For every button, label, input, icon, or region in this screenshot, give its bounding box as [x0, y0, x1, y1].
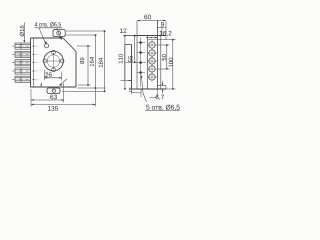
port tab 4	[12, 68, 39, 74]
bottom dim extension lines	[31, 83, 64, 107]
right view: body block step	[125, 45, 132, 81]
ext line body bottom	[77, 87, 106, 89]
left view: inner wall line	[33, 38, 35, 87]
leader of Ø16	[23, 23, 25, 43]
port hole 1	[149, 42, 155, 48]
port hole 5	[149, 74, 155, 80]
leader of 5 otv note	[142, 77, 147, 103]
note 4 otv shelf	[35, 27, 63, 29]
top mounting lug	[53, 30, 65, 37]
dim text 50	[162, 54, 166, 60]
dim 9 line	[158, 27, 167, 29]
dim text 26	[45, 72, 52, 77]
dim text 16,2	[160, 31, 172, 36]
dim text 110	[118, 54, 122, 63]
dim text 100	[169, 58, 173, 67]
dot hole 1	[139, 41, 142, 44]
note 5 otv	[146, 105, 179, 111]
port tab 3	[12, 60, 39, 66]
dim 135 line	[31, 103, 96, 105]
dim 50 line	[166, 45, 168, 69]
dim 100 line	[172, 40, 174, 90]
diagonal tick near bottom lug	[60, 79, 67, 85]
dim text 135	[48, 106, 58, 111]
dim text 184	[99, 58, 103, 67]
bottom bracket top edge	[158, 85, 167, 87]
lug hole center tick	[52, 89, 55, 92]
dim 6,7 arrows	[162, 81, 164, 93]
dim 110 line	[124, 36, 126, 90]
dim 26 line	[44, 77, 61, 79]
dim text 164	[90, 57, 94, 66]
strip axis	[151, 40, 153, 83]
port tab 2	[12, 51, 39, 57]
plate right edge	[157, 21, 159, 90]
ext line lug top	[66, 30, 106, 32]
leader to corner hole	[39, 28, 46, 44]
label O16	[20, 26, 24, 37]
port tab 1	[12, 43, 39, 49]
dim text 9	[161, 22, 164, 27]
bottom mounting lug	[47, 88, 60, 93]
arrow mark at bottom edge	[40, 83, 42, 87]
dim 184 line	[104, 31, 106, 92]
dots axis line	[140, 38, 142, 88]
dot hole 4	[139, 71, 142, 74]
note 5 otv shelf	[145, 110, 180, 112]
dim 26 extension lines	[44, 70, 61, 81]
inner wall	[136, 21, 138, 89]
dim text 89	[80, 58, 84, 64]
dim 63 line	[31, 99, 64, 101]
top lug hole	[57, 31, 61, 35]
flange center cross	[45, 53, 61, 69]
ext line lug bottom	[62, 91, 106, 93]
leader to top lug hole	[57, 28, 62, 39]
dim text 63	[50, 95, 57, 100]
dim 60 line	[137, 20, 166, 22]
port hole 3	[149, 58, 155, 64]
port strip left edge	[147, 35, 149, 89]
dot hole 3	[139, 61, 142, 64]
body block bottom arrow line	[121, 80, 132, 82]
bottom bracket right edge	[165, 86, 167, 90]
dim 89 line	[87, 46, 89, 85]
bottom lug hole	[52, 89, 55, 92]
dot hole 2	[139, 51, 142, 54]
dim text 5	[129, 88, 132, 92]
note 4 otv	[35, 22, 61, 27]
port hole 2	[149, 50, 155, 56]
plate second right edge	[160, 35, 162, 89]
dim 89 extension ticks	[77, 46, 91, 85]
dim 164 line	[95, 35, 97, 107]
corner hole	[44, 44, 48, 48]
top bracket bottom edge	[148, 39, 166, 41]
right view: plate top edge	[137, 35, 166, 37]
right view: plate bottom edge	[132, 88, 167, 90]
dim 55 line	[134, 36, 136, 63]
dim 16,2 arrow line	[146, 37, 158, 39]
right view: plate left edge	[131, 45, 133, 90]
flange bolt holes	[52, 50, 56, 54]
dim 50 ticks	[158, 45, 170, 69]
flange circle	[44, 51, 64, 71]
ext line body top	[66, 34, 97, 36]
port tab 5	[12, 76, 39, 82]
port hole 4	[149, 66, 155, 72]
dim text 6,7	[156, 95, 164, 100]
dim 100 ticks	[166, 40, 176, 90]
bottom-left exts of right view	[132, 89, 142, 97]
dim text 55	[128, 56, 132, 62]
dim text 60	[144, 15, 151, 20]
dim 12 arrow line	[126, 35, 136, 37]
left dims extension ticks	[123, 35, 137, 37]
dim text 12	[120, 28, 126, 33]
left view: body outline	[31, 38, 77, 87]
top bracket right edge	[165, 22, 167, 41]
